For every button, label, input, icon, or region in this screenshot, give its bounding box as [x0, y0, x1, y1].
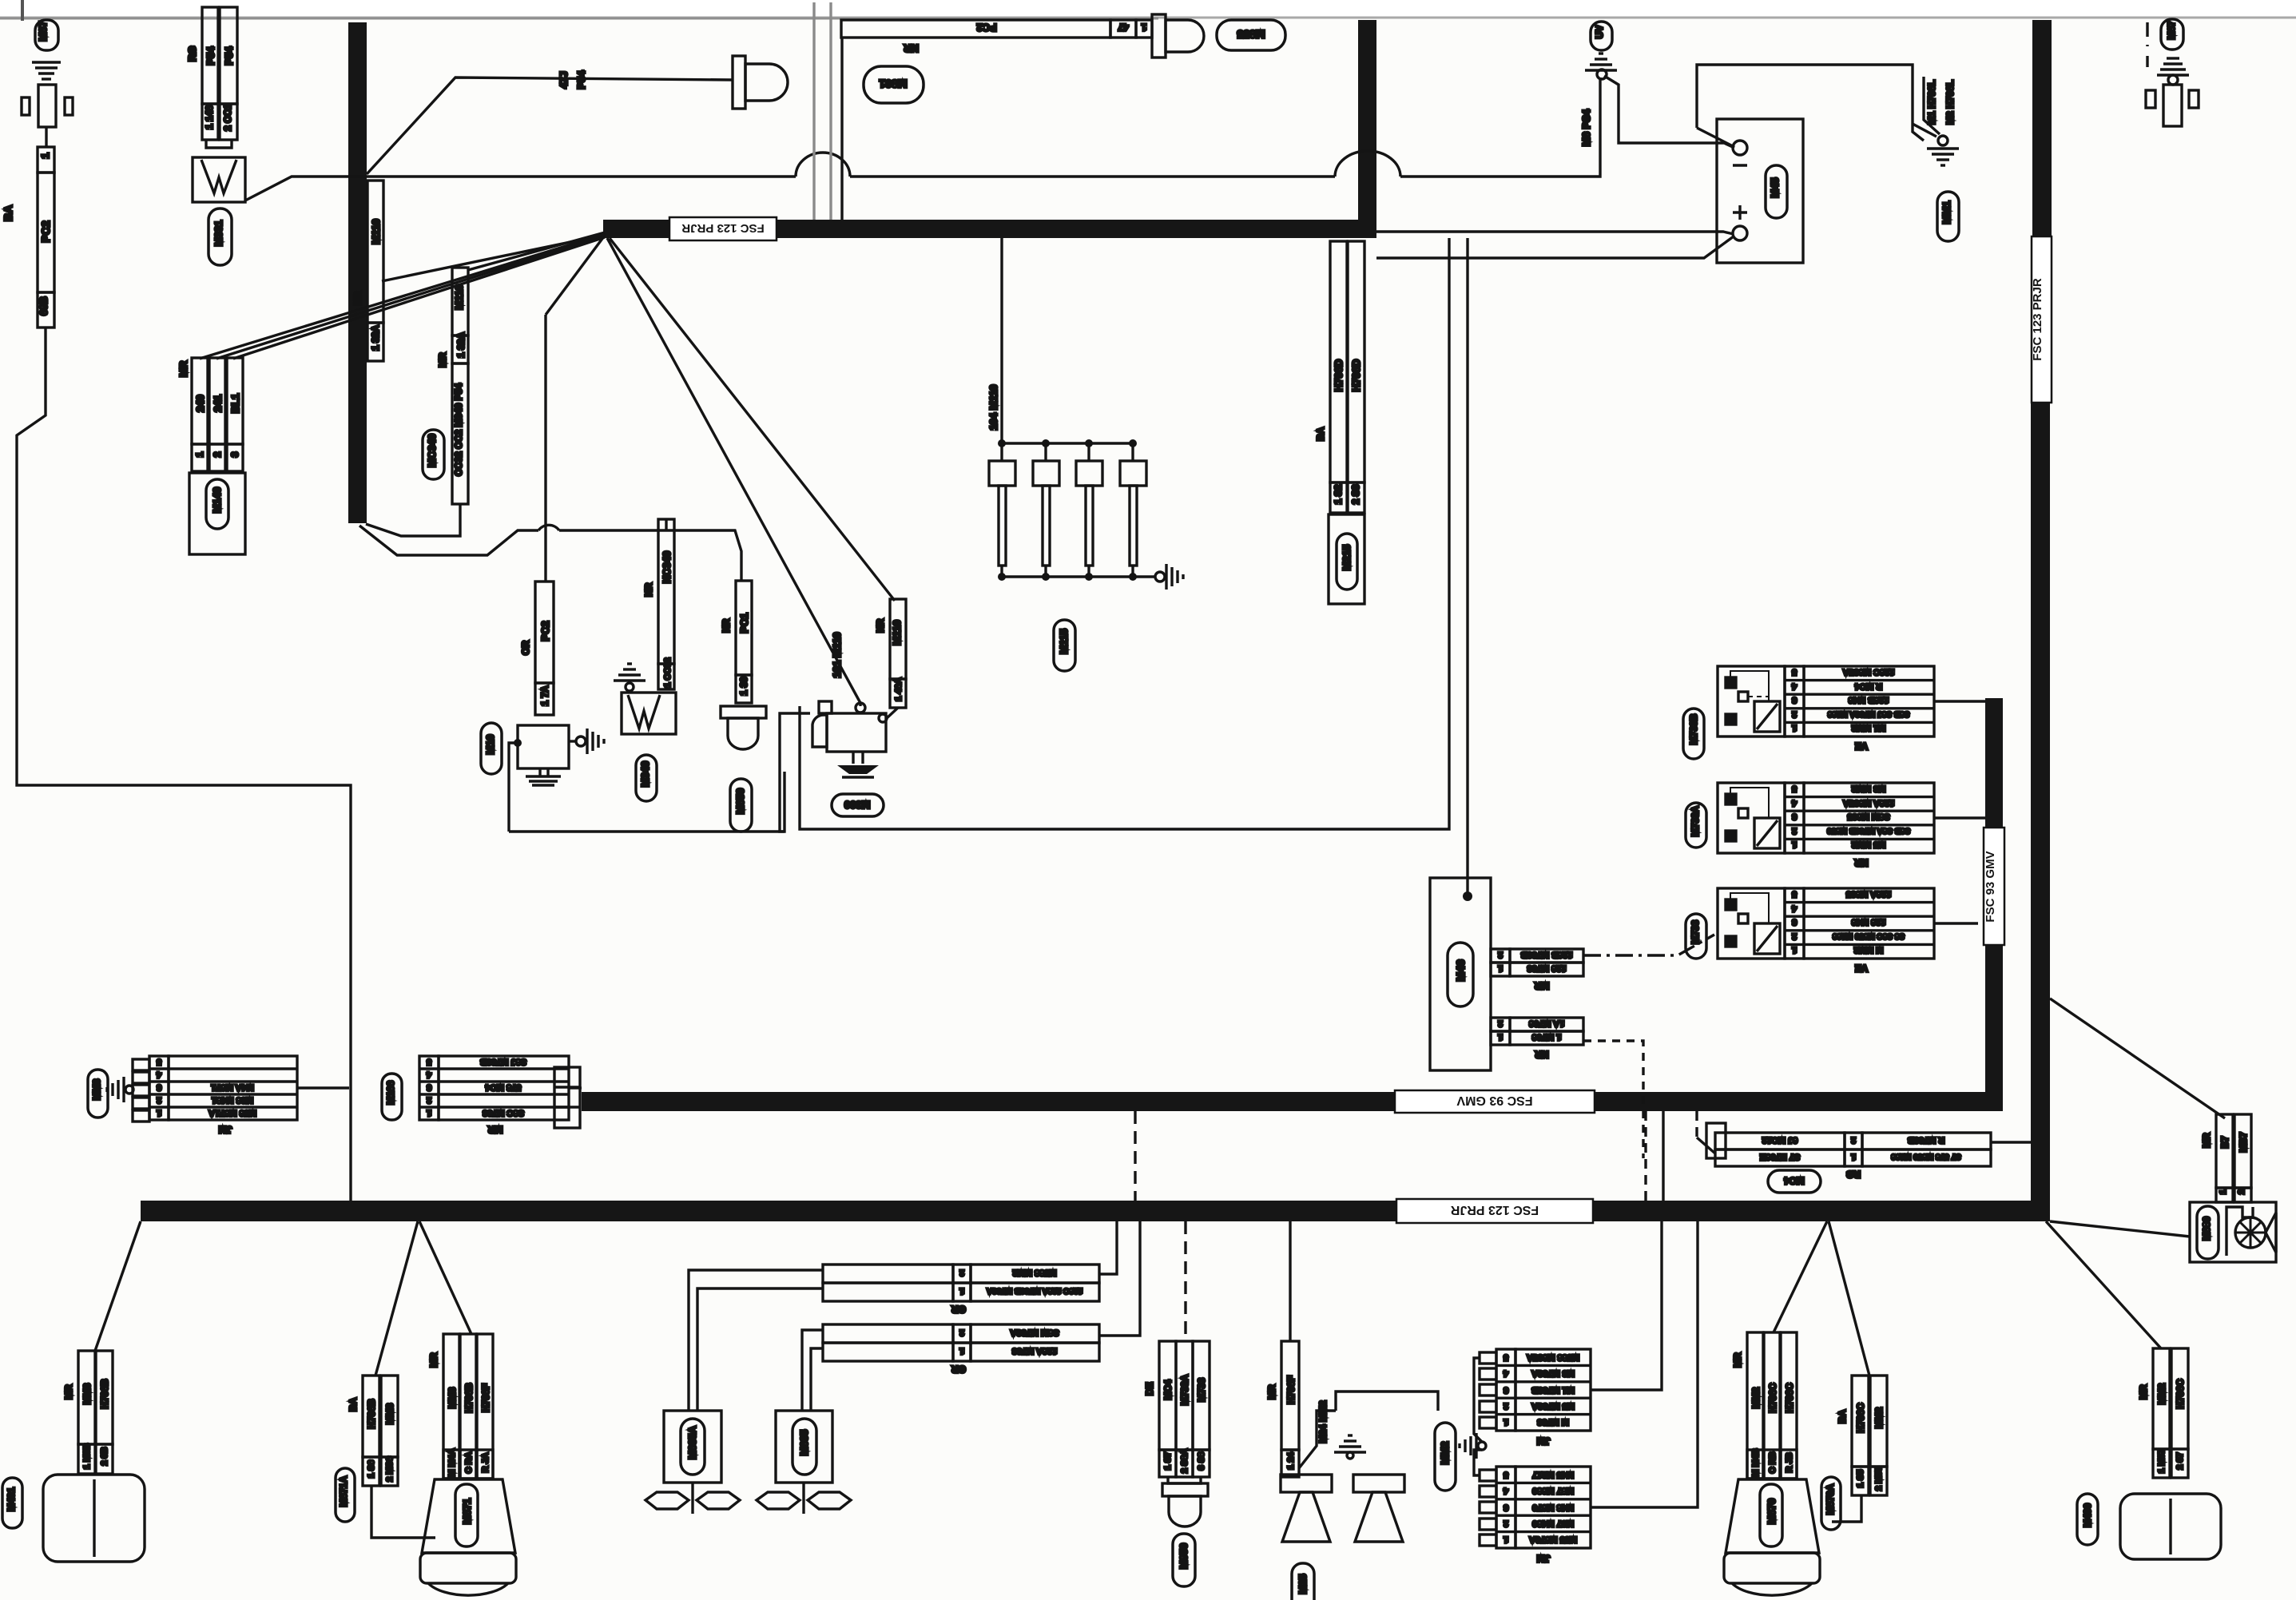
- svg-text:2 S8A: 2 S8A: [1180, 1449, 1190, 1474]
- svg-text:2 3B: 2 3B: [100, 1447, 109, 1465]
- svg-text:1: 1: [1504, 1534, 1508, 1544]
- svg-text:2 37: 2 37: [2175, 1452, 2185, 1469]
- svg-text:1 CC32: 1 CC32: [663, 657, 673, 687]
- svg-text:M733B: M733B: [1688, 713, 1699, 744]
- svg-text:M635: M635: [798, 1430, 810, 1456]
- svg-text:101 M110: 101 M110: [831, 632, 843, 677]
- svg-text:MC4: MC4: [1784, 1175, 1805, 1186]
- svg-text:M5 M733A: M5 M733A: [1531, 1401, 1575, 1411]
- svg-text:3: 3: [157, 1082, 161, 1092]
- svg-text:BA: BA: [2, 205, 14, 221]
- svg-text:H706C: H706C: [1767, 1383, 1778, 1413]
- svg-text:M2 H706L: M2 H706L: [1944, 80, 1956, 125]
- svg-text:FSC 123 PRJR: FSC 123 PRJR: [2031, 278, 2044, 361]
- svg-text:2 M55: 2 M55: [1874, 1467, 1884, 1491]
- svg-text:M110: M110: [370, 219, 382, 244]
- svg-text:MR: MR: [1266, 1384, 1277, 1400]
- svg-text:M733A: M733A: [1179, 1374, 1190, 1405]
- svg-text:M46: M46: [1454, 959, 1467, 981]
- svg-text:M588 M635A: M588 M635A: [1527, 1352, 1579, 1362]
- svg-text:M45 M217: M45 M217: [1532, 1470, 1574, 1479]
- svg-text:1: 1: [959, 1286, 964, 1296]
- svg-text:S8M M635: S8M M635: [1847, 812, 1889, 821]
- svg-text:126A M733: 126A M733: [1012, 1346, 1057, 1356]
- svg-text:DE: DE: [1144, 1382, 1155, 1396]
- svg-text:MR: MR: [428, 1352, 439, 1368]
- svg-text:H706B: H706B: [366, 1399, 377, 1429]
- svg-text:RG: RG: [1846, 1169, 1861, 1180]
- svg-text:M5 MM2: M5 MM2: [1852, 840, 1886, 849]
- svg-text:VE: VE: [1855, 963, 1868, 974]
- svg-text:M M733: M M733: [1537, 1417, 1569, 1427]
- svg-text:M10: M10: [484, 734, 496, 754]
- svg-text:3: 3: [427, 1082, 431, 1092]
- svg-text:M650: M650: [734, 788, 746, 815]
- svg-text:S8B S8J M733A M166: S8B S8J M733A M166: [1827, 709, 1909, 718]
- svg-text:M671: M671: [461, 1499, 473, 1525]
- svg-text:MR: MR: [437, 352, 448, 367]
- svg-text:GR: GR: [951, 1304, 966, 1315]
- svg-text:JM: JM: [1537, 1553, 1551, 1564]
- svg-text:MM3: MM3: [91, 1078, 102, 1100]
- svg-text:3: 3: [1792, 812, 1797, 821]
- svg-text:241: 241: [212, 395, 224, 412]
- svg-text:PC1: PC1: [738, 613, 750, 633]
- svg-text:OR: OR: [520, 641, 531, 655]
- svg-text:FSC 93 GMV: FSC 93 GMV: [1456, 1094, 1532, 1107]
- svg-text:FSC 93 GMV: FSC 93 GMV: [1984, 851, 1997, 922]
- svg-text:2: 2: [1504, 1401, 1508, 1411]
- svg-text:1: 1: [39, 153, 51, 158]
- svg-text:BA: BA: [1837, 1409, 1848, 1423]
- svg-text:M38 M481: M38 M481: [212, 1095, 253, 1105]
- svg-text:1 146: 1 146: [204, 105, 215, 129]
- svg-text:B7: B7: [2219, 1136, 2230, 1149]
- svg-text:3: 3: [1504, 1503, 1508, 1512]
- svg-text:S8C M733: S8C M733: [483, 1108, 524, 1118]
- svg-text:1: 1: [1792, 945, 1797, 955]
- svg-text:M680: M680: [2201, 1217, 2212, 1241]
- svg-text:M855: M855: [1237, 28, 1265, 41]
- svg-text:1: 1: [1504, 1417, 1508, 1427]
- svg-text:6J MC12: 6J MC12: [1762, 1135, 1798, 1145]
- svg-text:R MC4: R MC4: [1854, 681, 1882, 691]
- svg-text:3 S8: 3 S8: [1197, 1452, 1206, 1471]
- svg-text:1 7A: 1 7A: [539, 685, 550, 706]
- svg-text:M25: M25: [1297, 1574, 1309, 1594]
- svg-text:NR: NR: [1854, 857, 1869, 868]
- svg-text:NC340: NC340: [661, 551, 673, 583]
- svg-text:M45: M45: [1769, 177, 1781, 197]
- svg-text:126B M733B: 126B M733B: [1521, 950, 1573, 959]
- svg-text:1 32A: 1 32A: [370, 325, 381, 351]
- svg-text:1: 1: [1851, 1152, 1856, 1161]
- svg-text:MM2: MM2: [1439, 1442, 1451, 1465]
- svg-text:3: 3: [1792, 695, 1797, 705]
- svg-text:4: 4: [1791, 903, 1797, 913]
- svg-text:M400: M400: [2082, 1503, 2093, 1527]
- svg-text:47: 47: [1118, 22, 1129, 33]
- svg-text:RG: RG: [186, 46, 198, 62]
- svg-text:MM2: MM2: [2156, 1383, 2167, 1404]
- svg-text:4: 4: [1791, 681, 1797, 691]
- svg-text:1: 1: [2219, 1189, 2228, 1194]
- svg-text:1: 1: [427, 1108, 431, 1118]
- svg-text:H706C: H706C: [1855, 1403, 1866, 1433]
- svg-text:S8M M733A: S8M M733A: [1010, 1328, 1059, 1337]
- svg-text:MC340: MC340: [426, 434, 438, 467]
- svg-text:1 32A: 1 32A: [455, 332, 467, 358]
- svg-text:1 24: 1 24: [1286, 1451, 1296, 1469]
- svg-text:5: 5: [1792, 784, 1797, 793]
- svg-text:BA: BA: [348, 1397, 359, 1411]
- svg-text:M1 MM2: M1 MM2: [1852, 723, 1886, 733]
- svg-text:R JA: R JA: [481, 1452, 491, 1472]
- svg-text:MR: MR: [1534, 980, 1549, 991]
- svg-text:MM3: MM3: [447, 1387, 458, 1408]
- svg-text:1 S7: 1 S7: [1163, 1452, 1173, 1471]
- svg-text:M140: M140: [211, 487, 223, 514]
- svg-text:MM2: MM2: [1750, 1387, 1762, 1408]
- svg-text:M M4A: M M4A: [447, 1448, 457, 1477]
- svg-text:2: 2: [212, 451, 223, 457]
- svg-text:2: 2: [1792, 931, 1797, 941]
- svg-text:H706F: H706F: [1285, 1376, 1297, 1404]
- svg-text:NR: NR: [721, 618, 732, 633]
- svg-text:M861: M861: [879, 77, 907, 90]
- svg-text:1 M706: 1 M706: [1532, 1032, 1562, 1042]
- svg-text:S8B S8A M733B M850: S8B S8A M733B M850: [1827, 826, 1911, 835]
- svg-text:H706B: H706B: [463, 1383, 475, 1413]
- svg-text:M67: M67: [2166, 21, 2177, 40]
- svg-text:H706C: H706C: [2175, 1379, 2186, 1409]
- svg-text:M110: M110: [891, 620, 903, 645]
- svg-text:S8J M733B: S8J M733B: [480, 1057, 526, 1066]
- svg-text:M733: M733: [1196, 1378, 1207, 1402]
- svg-text:M670: M670: [1766, 1499, 1778, 1525]
- svg-text:PC2: PC2: [539, 621, 551, 641]
- svg-text:MM1: MM1: [1940, 201, 1952, 224]
- svg-text:MR: MR: [2201, 1133, 2212, 1148]
- svg-text:1: 1: [1792, 840, 1797, 849]
- svg-text:FSC 123 PRJR: FSC 123 PRJR: [681, 221, 765, 235]
- svg-text:M110: M110: [453, 284, 465, 310]
- svg-text:5: 5: [427, 1057, 431, 1066]
- svg-text:M401: M401: [6, 1487, 17, 1511]
- svg-text:C RA: C RA: [464, 1452, 474, 1474]
- svg-text:PC2: PC2: [39, 220, 52, 242]
- svg-text:126 M46: 126 M46: [1852, 917, 1886, 927]
- svg-text:104 M110: 104 M110: [987, 384, 999, 430]
- svg-text:M340: M340: [639, 761, 651, 788]
- svg-text:1 30: 1 30: [738, 677, 749, 696]
- svg-text:2: 2: [2237, 1189, 2246, 1194]
- svg-text:126B M46: 126B M46: [1849, 695, 1889, 705]
- svg-text:M733: M733: [1690, 920, 1701, 944]
- svg-text:M1 M733B: M1 M733B: [1531, 1385, 1575, 1395]
- svg-text:S7 H706E: S7 H706E: [1760, 1152, 1800, 1161]
- svg-text:M55 M670A: M55 M670A: [1529, 1534, 1577, 1544]
- svg-text:NR: NR: [875, 618, 886, 633]
- svg-text:MR: MR: [487, 1124, 502, 1135]
- svg-text:2: 2: [959, 1328, 964, 1337]
- svg-text:1A M706: 1A M706: [1529, 1018, 1564, 1028]
- svg-text:2: 2: [1792, 826, 1797, 836]
- svg-text:1: 1: [1498, 963, 1503, 973]
- svg-text:4: 4: [1503, 1368, 1508, 1378]
- svg-text:UV: UV: [1594, 26, 1605, 39]
- svg-text:M950: M950: [1178, 1543, 1190, 1570]
- svg-text:126 M733: 126 M733: [1527, 963, 1567, 973]
- svg-text:5: 5: [157, 1057, 161, 1066]
- svg-text:S7 578 M850 M166: S7 578 M850 M166: [1891, 1152, 1961, 1161]
- svg-text:2: 2: [1792, 709, 1797, 719]
- svg-text:C RB: C RB: [1768, 1452, 1778, 1474]
- svg-text:1: 1: [1498, 1032, 1503, 1042]
- svg-text:2 S3: 2 S3: [1350, 484, 1361, 504]
- svg-text:126A M635: 126A M635: [1846, 889, 1891, 899]
- svg-text:MM2: MM2: [1873, 1407, 1885, 1428]
- svg-text:H706B: H706B: [99, 1379, 110, 1409]
- svg-text:M635A: M635A: [686, 1425, 698, 1459]
- svg-text:M588 MM2: M588 MM2: [1012, 1268, 1056, 1277]
- svg-text:P54: P54: [575, 70, 587, 89]
- svg-text:M115: M115: [1058, 629, 1070, 654]
- svg-text:M215: M215: [1341, 545, 1353, 571]
- svg-text:P54: P54: [223, 46, 235, 66]
- svg-text:M48 M670: M48 M670: [1532, 1503, 1574, 1512]
- svg-text:126C 126A M733B M733A: 126C 126A M733B M733A: [987, 1286, 1082, 1295]
- svg-text:H706F: H706F: [480, 1384, 491, 1412]
- svg-text:H706D: H706D: [1333, 359, 1345, 391]
- svg-text:BL1: BL1: [229, 394, 241, 414]
- svg-text:MC4: MC4: [1162, 1380, 1174, 1400]
- svg-text:VE: VE: [1855, 740, 1868, 752]
- svg-text:5: 5: [1792, 667, 1797, 677]
- svg-text:3: 3: [1792, 917, 1797, 927]
- svg-text:1: 1: [157, 1108, 161, 1118]
- svg-text:1: 1: [959, 1346, 964, 1356]
- svg-text:2: 2: [959, 1268, 964, 1277]
- svg-text:1: 1: [1792, 723, 1797, 733]
- svg-text:1 S5: 1 S5: [1856, 1470, 1865, 1488]
- svg-text:M MM2: M MM2: [1854, 945, 1884, 955]
- svg-text:M6 PS4: M6 PS4: [1580, 109, 1592, 146]
- svg-text:M671A: M671A: [338, 1475, 349, 1507]
- svg-text:47J: 47J: [558, 71, 570, 89]
- svg-text:MR: MR: [63, 1384, 74, 1400]
- svg-text:4: 4: [1503, 1486, 1508, 1495]
- svg-text:NR: NR: [904, 42, 919, 54]
- svg-text:126C M635A: 126C M635A: [1843, 667, 1895, 677]
- svg-text:1: 1: [1141, 22, 1146, 33]
- svg-text:M87 M680: M87 M680: [1532, 1486, 1574, 1495]
- svg-text:MR: MR: [1732, 1352, 1743, 1368]
- svg-text:1 M37: 1 M37: [2157, 1449, 2167, 1474]
- svg-text:JM: JM: [1537, 1435, 1551, 1447]
- svg-text:MB7: MB7: [2238, 1132, 2249, 1153]
- svg-text:S8 S8C M850 M166: S8 S8C M850 M166: [1833, 931, 1905, 940]
- svg-text:R JB: R JB: [1785, 1452, 1794, 1472]
- svg-text:H706C: H706C: [1784, 1383, 1795, 1413]
- svg-text:NR: NR: [643, 582, 654, 597]
- svg-text:126A M635A: 126A M635A: [1843, 798, 1894, 808]
- svg-text:BA: BA: [1315, 427, 1326, 441]
- svg-text:5: 5: [1504, 1352, 1508, 1362]
- svg-text:M1 H706L: M1 H706L: [1926, 80, 1937, 125]
- svg-text:M166: M166: [385, 1081, 396, 1105]
- svg-text:2: 2: [1498, 1018, 1503, 1028]
- svg-text:M4A M671: M4A M671: [211, 1082, 253, 1092]
- svg-text:MM3: MM3: [384, 1403, 395, 1424]
- svg-text:MR: MR: [177, 360, 189, 377]
- svg-text:3: 3: [229, 451, 240, 457]
- svg-text:69B: 69B: [38, 296, 50, 316]
- svg-text:GR: GR: [951, 1364, 966, 1375]
- svg-text:2: 2: [427, 1095, 431, 1105]
- svg-text:2: 2: [1504, 1519, 1508, 1528]
- svg-text:NR: NR: [352, 291, 363, 305]
- svg-text:MM3: MM3: [81, 1383, 93, 1404]
- svg-text:MR: MR: [2138, 1384, 2149, 1400]
- svg-text:4: 4: [156, 1070, 161, 1079]
- svg-text:M37 M480: M37 M480: [1532, 1519, 1574, 1528]
- svg-text:2: 2: [157, 1095, 161, 1105]
- svg-text:PC2: PC2: [976, 22, 996, 34]
- svg-text:M56 M671A: M56 M671A: [209, 1108, 256, 1118]
- svg-text:240: 240: [194, 395, 206, 412]
- svg-text:1 S6: 1 S6: [367, 1460, 376, 1479]
- svg-text:M331: M331: [213, 220, 224, 247]
- svg-text:3: 3: [1504, 1385, 1508, 1395]
- svg-text:1 46A: 1 46A: [894, 677, 904, 701]
- svg-text:NR: NR: [1535, 1049, 1549, 1060]
- svg-text:M670A: M670A: [1825, 1483, 1836, 1515]
- svg-text:2 MS6: 2 MS6: [385, 1456, 395, 1482]
- svg-text:M3 M733A: M3 M733A: [1531, 1368, 1575, 1378]
- svg-text:2 CC1: 2 CC1: [222, 104, 233, 131]
- svg-text:1 M3B: 1 M3B: [82, 1443, 92, 1469]
- svg-text:R M733B: R M733B: [1908, 1135, 1945, 1145]
- svg-text:CC32 CC2 M340 P54: CC32 CC2 M340 P54: [453, 383, 464, 476]
- svg-text:M67: M67: [37, 21, 49, 41]
- svg-text:M3 MM2: M3 MM2: [1852, 784, 1886, 793]
- svg-text:2: 2: [1498, 950, 1503, 959]
- svg-text:1: 1: [194, 451, 205, 457]
- svg-text:M300: M300: [844, 799, 871, 811]
- svg-text:FSC 123 PRJR: FSC 123 PRJR: [1450, 1203, 1539, 1217]
- svg-text:M24 MM2: M24 MM2: [1317, 1400, 1329, 1443]
- svg-text:5: 5: [1792, 889, 1797, 899]
- svg-text:JM: JM: [219, 1124, 232, 1135]
- svg-text:1 S2: 1 S2: [1333, 484, 1344, 504]
- svg-text:5: 5: [1504, 1470, 1508, 1479]
- svg-text:M733A: M733A: [1690, 805, 1701, 836]
- svg-text:M M4B: M M4B: [1751, 1448, 1761, 1477]
- svg-text:4: 4: [1791, 798, 1797, 808]
- svg-text:4: 4: [426, 1070, 431, 1079]
- svg-text:578 MC4: 578 MC4: [485, 1082, 522, 1092]
- svg-text:H706D: H706D: [1350, 359, 1362, 391]
- svg-text:2: 2: [1851, 1135, 1856, 1145]
- svg-text:P54: P54: [205, 46, 216, 66]
